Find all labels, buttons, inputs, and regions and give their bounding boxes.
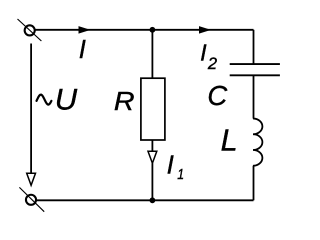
wire below inductor — [253, 166, 255, 201]
svg-text:U: U — [55, 84, 78, 116]
svg-text:L: L — [221, 123, 238, 157]
inductor L — [253, 119, 262, 166]
svg-text:I: I — [200, 40, 207, 66]
svg-text:1: 1 — [177, 166, 184, 182]
wire right branch upper — [253, 30, 255, 64]
label I2 — [200, 40, 217, 74]
wire bottom — [37, 199, 254, 201]
node junction bottom — [150, 197, 156, 203]
svg-text:R: R — [114, 86, 135, 115]
arrow voltage U (hollow) — [27, 173, 36, 185]
resistor R — [141, 78, 165, 140]
wire between C and L — [253, 75, 255, 118]
svg-text:2: 2 — [207, 55, 217, 73]
arrow current I1 (hollow) — [148, 151, 157, 163]
terminal top-left — [18, 19, 42, 41]
arrow current I2 — [199, 26, 211, 33]
wire middle branch lower — [151, 163, 153, 200]
svg-text:I: I — [167, 149, 174, 179]
node junction top — [150, 27, 156, 33]
wire middle branch upper — [151, 30, 153, 78]
svg-text:I: I — [79, 36, 86, 64]
label I1 — [167, 149, 184, 182]
capacitor C — [230, 64, 280, 75]
terminal bottom-left — [19, 187, 44, 211]
wire top — [36, 29, 254, 31]
wire left branch — [30, 44, 32, 174]
svg-text:C: C — [207, 80, 227, 111]
label ~ (sine) — [37, 95, 52, 105]
arrow current I — [79, 26, 91, 33]
wire below resistor — [151, 140, 153, 151]
